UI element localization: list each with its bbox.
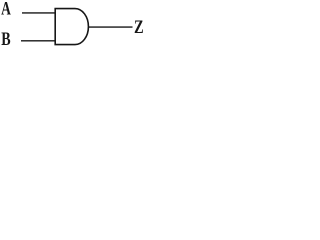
node A label xyxy=(1,0,11,19)
node B label xyxy=(1,28,10,50)
AND gate U1 xyxy=(55,9,88,45)
wire Z output xyxy=(89,26,133,28)
node Z label xyxy=(134,16,144,37)
wire A input xyxy=(22,12,55,14)
svg-text:B: B xyxy=(1,28,10,50)
svg-text:Z: Z xyxy=(134,16,144,37)
wire B input xyxy=(21,40,55,42)
svg-text:A: A xyxy=(1,0,11,19)
